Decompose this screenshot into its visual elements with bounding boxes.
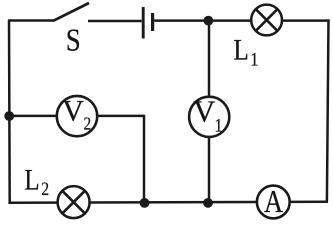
svg-text:2: 2 — [41, 179, 49, 199]
lamp L2 — [58, 186, 90, 218]
svg-text:V: V — [62, 94, 84, 127]
junction node top — [204, 16, 214, 26]
svg-text:1: 1 — [214, 115, 222, 136]
switch S blade — [53, 3, 89, 21]
svg-text:S: S — [66, 24, 81, 59]
battery short plate — [151, 13, 154, 31]
wire V1 branch vertical — [208, 21, 211, 203]
lamp L1 — [251, 5, 282, 36]
ammeter A — [257, 185, 290, 220]
wire right vertical — [327, 19, 329, 202]
svg-text:L: L — [24, 163, 39, 197]
label L1 — [233, 32, 258, 69]
wire battery to top-right corner — [154, 19, 329, 22]
wire switch to battery — [88, 20, 142, 23]
wire V2 branch horizontal — [9, 115, 144, 118]
wire top-left segment — [8, 19, 53, 22]
wire V2 branch vertical — [143, 115, 146, 203]
wire bottom — [8, 201, 328, 204]
junction node left — [4, 111, 14, 121]
svg-text:L: L — [233, 32, 248, 66]
battery long plate — [142, 7, 145, 39]
svg-text:A: A — [264, 185, 283, 220]
label L2 — [24, 163, 49, 200]
voltmeter V2 — [57, 94, 97, 136]
voltmeter V1 — [189, 95, 229, 137]
svg-text:V: V — [193, 95, 215, 129]
wire left vertical — [8, 20, 11, 202]
svg-text:2: 2 — [84, 113, 92, 133]
junction node bottom-right — [203, 198, 213, 208]
junction node bottom-left — [140, 198, 150, 208]
svg-text:1: 1 — [250, 49, 258, 70]
